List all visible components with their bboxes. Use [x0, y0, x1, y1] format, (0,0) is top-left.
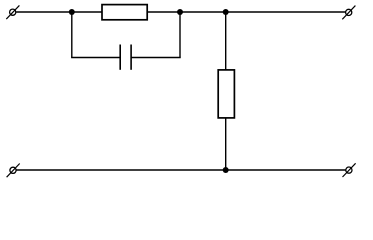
capacitor C1: [120, 45, 131, 70]
junction node D: [223, 167, 229, 173]
junction node B: [177, 9, 183, 15]
wire: R2 down to node D: [225, 118, 227, 170]
wire: node C down to R2: [225, 12, 227, 70]
wire: node A down to capacitor row: [71, 12, 73, 58]
junction node A: [69, 9, 75, 15]
wire top: R1 right to node B: [147, 11, 180, 13]
junction node C: [223, 9, 229, 15]
wire bottom: node D to T4: [226, 169, 346, 171]
wire top: node C to T2: [226, 11, 346, 13]
terminal T4 (bottom-right): [343, 163, 356, 177]
terminal T1 (top-left): [6, 5, 19, 19]
wire bottom: T3 to node D: [17, 169, 226, 171]
wire: C1 to capacitor row right: [131, 57, 181, 59]
wire top: T1 to node A: [16, 11, 72, 13]
terminal T2 (top-right): [342, 6, 355, 20]
resistor R2: [218, 70, 234, 118]
wire top: node B to node C: [180, 11, 226, 13]
wire: capacitor row up to node B: [179, 12, 181, 58]
wire top: node A to R1 left: [72, 11, 102, 13]
wire: capacitor row left to C1: [71, 57, 120, 59]
resistor R1: [102, 5, 147, 20]
terminal T3 (bottom-left): [7, 164, 20, 178]
